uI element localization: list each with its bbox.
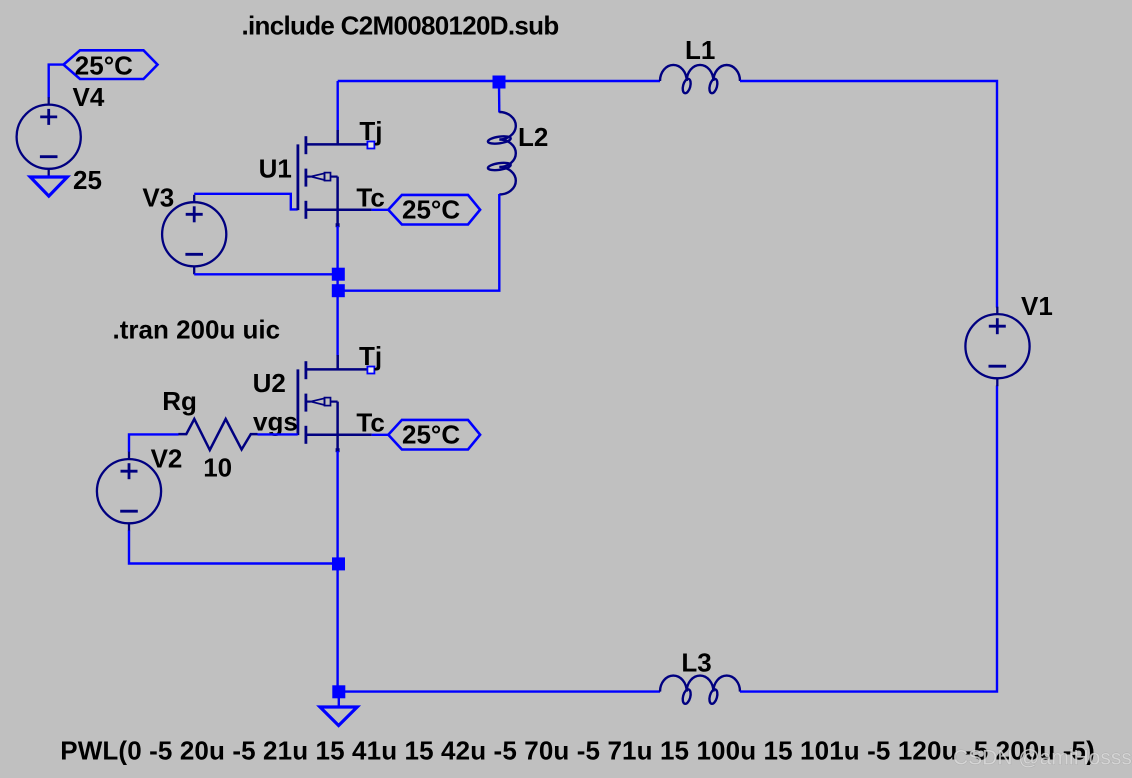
- U1 body arrow: [306, 176, 311, 178]
- svg-text:25: 25: [73, 165, 102, 195]
- svg-text:Tc: Tc: [356, 182, 384, 212]
- voltage source V3: [162, 195, 226, 274]
- wire bottom rail right segment into V1: [740, 386, 997, 692]
- U2 source pin dot: [336, 448, 340, 452]
- wire top rail left segment: [338, 80, 660, 82]
- voltage source V1: [965, 307, 1029, 387]
- U1 body vertical: [336, 177, 339, 226]
- svg-text:L2: L2: [518, 122, 548, 152]
- svg-text:Tj: Tj: [359, 341, 382, 371]
- U2 gate plate: [296, 369, 299, 435]
- wire top rail right segment into V1: [740, 81, 997, 308]
- resistor Rg: [178, 419, 257, 450]
- wire hexagon to V4: [49, 65, 64, 98]
- U2 channel bars: [304, 361, 307, 379]
- svg-text:.tran 200u uic: .tran 200u uic: [113, 314, 281, 344]
- node junction bottom rail: [332, 685, 345, 698]
- wire U2 Tc to flag: [372, 434, 389, 436]
- svg-text:V1: V1: [1021, 291, 1053, 321]
- U1 source bar: [305, 209, 372, 212]
- U2 pin Tj marker: [367, 367, 374, 374]
- voltage source V4: [17, 97, 81, 176]
- svg-text:V2: V2: [151, 444, 183, 474]
- ground under V4: [30, 177, 67, 196]
- wire U2 source down to bottom rail: [336, 451, 338, 692]
- svg-text:25°C: 25°C: [402, 420, 460, 450]
- svg-text:V4: V4: [73, 82, 105, 112]
- svg-text:V3: V3: [142, 183, 174, 213]
- svg-text:CSDN @amiHosss: CSDN @amiHosss: [953, 747, 1132, 770]
- inductor L2: [487, 112, 515, 195]
- wire V3 plus to U1 gate: [194, 194, 298, 210]
- wire Rg to U2 gate: [258, 433, 298, 435]
- net flag 25C at U2 Tc: [388, 420, 480, 450]
- node junction top rail / L2: [493, 76, 506, 89]
- U2 drain pin: [336, 355, 339, 369]
- wire U1 source to U2 drain with junctions: [336, 226, 338, 356]
- svg-text:PWL(0 -5 20u -5 21u 15 41u 15: PWL(0 -5 20u -5 21u 15 41u 15 42u -5 70u…: [60, 735, 1095, 765]
- svg-text:U2: U2: [253, 368, 286, 398]
- svg-text:Tj: Tj: [359, 116, 382, 146]
- wire L2 top: [498, 82, 501, 113]
- svg-text:25°C: 25°C: [402, 195, 460, 225]
- U1 source pin dot: [336, 223, 340, 227]
- svg-text:L3: L3: [681, 648, 711, 678]
- svg-text:.include C2M0080120D.sub: .include C2M0080120D.sub: [242, 11, 559, 41]
- wire stub to ground: [338, 695, 340, 707]
- U1 channel bars: [304, 136, 307, 154]
- wire V2 plus to Rg: [129, 434, 179, 452]
- svg-text:vgs: vgs: [253, 406, 298, 436]
- node junction L2 return: [332, 284, 345, 297]
- net flag 25C at U1 Tc: [388, 195, 480, 225]
- inductor L1: [660, 65, 740, 94]
- U2 source bar: [305, 434, 372, 437]
- svg-text:25°C: 25°C: [75, 51, 133, 81]
- svg-text:L1: L1: [685, 35, 715, 65]
- svg-text:Tc: Tc: [356, 407, 384, 437]
- voltage source V2: [97, 452, 161, 532]
- svg-text:Rg: Rg: [162, 386, 197, 416]
- wire V2 minus to source junction: [129, 531, 339, 564]
- ground bottom: [320, 707, 357, 726]
- U2 body arrow: [306, 401, 311, 403]
- U1 drain pin: [336, 130, 339, 144]
- inductor L3: [660, 676, 740, 705]
- mosfet U2: [298, 355, 372, 450]
- svg-text:U1: U1: [259, 153, 292, 183]
- U1 pin Tj marker: [367, 142, 374, 149]
- mosfet U1: [298, 130, 372, 225]
- wire bottom rail left segment: [339, 690, 660, 692]
- node junction V3 return: [332, 268, 345, 281]
- U1 drain bar: [306, 143, 368, 146]
- svg-text:10: 10: [203, 453, 232, 483]
- wire U1 drain from top rail: [337, 81, 339, 131]
- wire L2 bottom to junction: [338, 194, 499, 291]
- U2 body vertical: [336, 402, 339, 451]
- wire U1 Tc to flag: [372, 209, 389, 211]
- U2 drain bar: [306, 368, 368, 371]
- node junction V2 return: [332, 557, 345, 570]
- wire V3 minus to junction node: [194, 273, 338, 275]
- net flag 25C top-left: [64, 50, 158, 80]
- U1 gate plate: [296, 144, 299, 210]
